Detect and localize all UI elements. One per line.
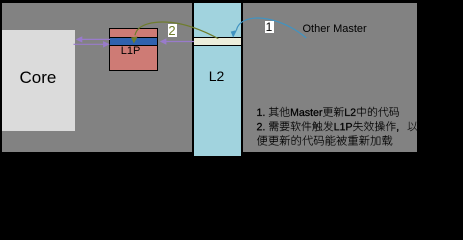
L1P label (109, 46, 153, 57)
wire: purple arrow L2 to L1P (166, 41, 194, 43)
wire: purple arrow Core to L1P (74, 43, 104, 45)
L1P box (109, 28, 158, 72)
arrows + chinese text svg overlay (0, 0, 463, 158)
note line 1 (257, 107, 399, 117)
L2 cache column (192, 2, 243, 158)
label 1 (265, 21, 274, 33)
screenshot crop: bottom black band left of L2 (0, 152, 192, 158)
Other Master label (303, 23, 367, 36)
L1P blue band (109, 37, 158, 46)
slide background (2, 3, 417, 152)
wire: olive curved arrow 2 (L2 band to L1P blue band) (135, 22, 218, 39)
label 2 (168, 24, 177, 37)
note line 3 (257, 135, 392, 145)
L2 label (193, 69, 240, 83)
note line 2 (257, 121, 418, 132)
screenshot crop: left black band (0, 0, 2, 158)
screenshot crop: bottom black band right of L2 (243, 152, 417, 158)
screenshot crop: right black band (417, 0, 463, 158)
L2 updated-code band (194, 37, 241, 46)
screenshot crop: top black band (0, 0, 463, 3)
Core label (20, 69, 57, 86)
wire: purple arrow L1P to Core (82, 38, 110, 40)
Core box (2, 30, 75, 131)
wire: teal curved arrow 1 (Other Master to L2 band) (236, 18, 306, 38)
